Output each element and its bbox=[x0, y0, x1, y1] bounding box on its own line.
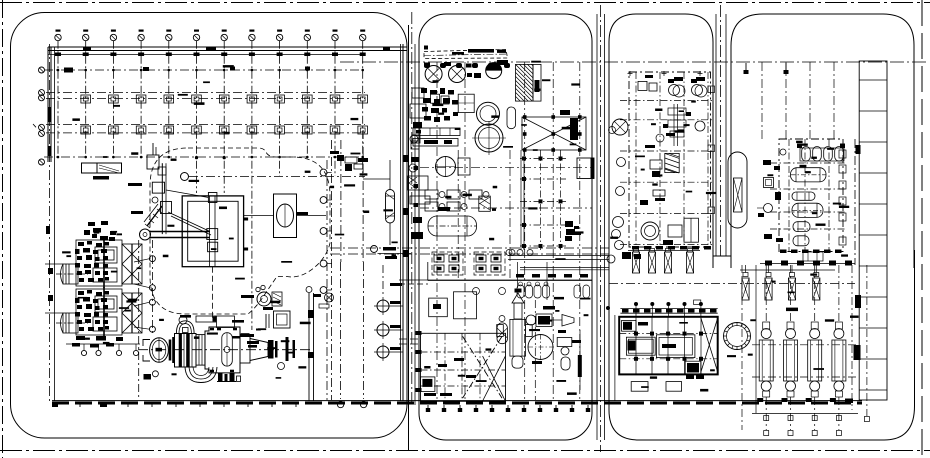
right border squares C bbox=[708, 86, 715, 93]
condenser marks below generator bbox=[218, 373, 223, 381]
column circle A6 bbox=[193, 34, 199, 40]
vessel capsule bbox=[386, 190, 395, 224]
fan circle 1 bbox=[425, 66, 442, 83]
left verticals bbox=[614, 315, 616, 401]
node dots on blob edge bbox=[195, 156, 198, 159]
column line A9 bbox=[279, 41, 281, 176]
road B/C lines bbox=[596, 14, 598, 440]
horizontal dash rows plot B bbox=[420, 167, 592, 169]
left circle with stem bbox=[764, 204, 773, 213]
building left edge bbox=[47, 47, 49, 162]
label marks turbine bbox=[180, 315, 191, 318]
crane pivot bbox=[161, 202, 172, 214]
capsule tank on road CD bbox=[728, 152, 747, 228]
right border squares bbox=[839, 150, 846, 158]
boiler feed annex top bbox=[147, 155, 159, 169]
bottom dash row D1 bbox=[780, 250, 787, 254]
extra bullet grid lines right bbox=[851, 265, 853, 410]
plot CD merged bottom boundary bbox=[609, 250, 915, 440]
hatched rect bbox=[516, 64, 534, 101]
bullet vessel at 838.9 bbox=[832, 265, 846, 436]
big circle bbox=[528, 335, 553, 360]
road crossing y248 bbox=[330, 247, 609, 249]
boiler unit B1 bbox=[56, 238, 142, 288]
column circle A12 bbox=[360, 34, 366, 40]
column line A10 bbox=[306, 41, 308, 157]
small marks top circles bbox=[674, 77, 683, 81]
column circle A2 bbox=[83, 34, 89, 40]
bullet vessel at 790.5 bbox=[784, 265, 798, 436]
plot B boundary bbox=[419, 14, 592, 440]
block C internal verticals bbox=[635, 72, 637, 247]
column circle A4 bbox=[138, 34, 144, 40]
slim vessel row 2 bbox=[742, 278, 749, 300]
condenser arcs below LP bbox=[185, 367, 217, 383]
cooling blob dashed outline bbox=[150, 148, 330, 314]
central channel bbox=[209, 196, 211, 267]
column circle A5 bbox=[166, 34, 172, 40]
block D1 dash border bbox=[779, 139, 843, 252]
boiler top economizer cluster bbox=[84, 230, 90, 235]
circles row below boilers bbox=[81, 350, 86, 355]
plot B bottom ticks bbox=[427, 405, 429, 409]
column line A1 bbox=[57, 41, 59, 160]
left edge items column bbox=[412, 88, 424, 98]
bottom tick marks plot A bbox=[56, 402, 58, 407]
crane boom bbox=[150, 231, 210, 233]
label tick blob bbox=[296, 212, 308, 215]
block D1 rows bbox=[770, 162, 847, 164]
left big circle bbox=[612, 119, 628, 135]
central square structure outer bbox=[182, 196, 243, 267]
bullet vessel at 814.7 bbox=[808, 265, 822, 436]
ellipse pump house bbox=[274, 194, 297, 238]
inlet brackets left bbox=[143, 340, 150, 362]
building bottom line bbox=[52, 400, 862, 402]
column line A8 bbox=[251, 41, 253, 330]
main hall heavy rect bbox=[619, 317, 718, 375]
rect near B right edge bbox=[577, 158, 594, 179]
turbine bay right edge verticals bbox=[308, 293, 310, 401]
dash verticals x340 x363 bbox=[340, 262, 342, 399]
plot D col lines bbox=[761, 62, 763, 141]
horizontal vessel v3 bbox=[792, 203, 823, 217]
plot C boundary bbox=[609, 14, 713, 268]
column circle A9 bbox=[276, 34, 282, 40]
shed rect bbox=[454, 292, 477, 319]
generator bbox=[205, 327, 240, 373]
right items bbox=[557, 338, 572, 347]
crane mast top boxes bbox=[152, 182, 164, 193]
bullet vessel at 766.2 bbox=[759, 265, 773, 436]
heat exchanger bank bbox=[673, 104, 675, 146]
column line A12 bbox=[362, 41, 364, 176]
crane boom end circle bbox=[140, 229, 151, 240]
feed pump group bbox=[257, 292, 271, 306]
black blobs around fans bbox=[424, 63, 430, 67]
mid circle with cross bbox=[436, 157, 456, 177]
dark tick marks row y70 bbox=[64, 68, 73, 73]
dense equipment below fans bbox=[421, 88, 427, 93]
outer road right bbox=[921, 0, 923, 458]
black cluster bottom-left bbox=[420, 377, 435, 392]
taper step bbox=[240, 336, 250, 364]
left square box bbox=[764, 178, 774, 188]
crane diagonals bbox=[168, 212, 209, 231]
top cluster right strip bbox=[337, 155, 344, 161]
vertical line x855 bbox=[854, 139, 856, 265]
bullet grid rows bbox=[752, 344, 858, 346]
dark marks on road lines bbox=[403, 155, 409, 162]
left capsule with X bbox=[497, 323, 507, 344]
small pump cluster right of blob bbox=[325, 293, 334, 302]
coupling bbox=[196, 335, 205, 366]
nodes on X frame bbox=[523, 115, 527, 119]
column circle A7 bbox=[221, 34, 227, 40]
column circle A10 bbox=[304, 34, 310, 40]
horizontal vessel v4 bbox=[793, 222, 810, 232]
square bottom stem bbox=[212, 267, 214, 318]
left edge black marks bbox=[416, 331, 422, 335]
bottom cluster C bbox=[641, 222, 659, 240]
boiler bottom marks bbox=[76, 336, 85, 340]
bottom marks bullets bbox=[757, 398, 763, 402]
column circle A1 bbox=[55, 34, 61, 40]
circle 700,126 bbox=[695, 121, 705, 131]
slim capsule right of circles bbox=[507, 107, 516, 129]
column line A3 bbox=[112, 41, 114, 160]
turbine shaft centerline bbox=[138, 349, 310, 351]
column line A2 bbox=[85, 41, 87, 160]
road CD connector bbox=[713, 255, 731, 257]
circles column x323 bbox=[326, 160, 328, 400]
pump with motor right bbox=[536, 314, 552, 327]
line y280 with corner bbox=[428, 280, 592, 282]
column line A6 bbox=[196, 41, 198, 193]
outer road top bbox=[0, 2, 930, 4]
turbine front ellipse bbox=[150, 338, 169, 363]
top rack with 4 capsules bbox=[800, 148, 844, 161]
top ticks plot D bbox=[745, 63, 747, 73]
row y176 bbox=[189, 176, 365, 178]
row lines bbox=[44, 69, 365, 71]
dark cluster right bbox=[565, 221, 573, 227]
mid verticals lower bbox=[534, 300, 536, 400]
plot C extra details bbox=[609, 71, 715, 214]
square box bbox=[429, 298, 448, 317]
vertical line x138 lower bbox=[138, 240, 140, 400]
dark blobs along road under train bbox=[424, 63, 430, 68]
crossing band lines bbox=[508, 255, 609, 257]
vertical text line x580 bbox=[579, 330, 581, 390]
blob label left bbox=[128, 183, 142, 186]
plot B rack bars left bbox=[413, 128, 460, 207]
row below D1 bbox=[760, 263, 855, 265]
column line A11 bbox=[334, 41, 336, 176]
column line A4 bbox=[140, 41, 142, 160]
top rack band bbox=[620, 307, 717, 309]
rack top dots bbox=[634, 302, 638, 306]
big grid rect lower left bbox=[421, 333, 506, 401]
plot D boundary bbox=[731, 14, 914, 268]
left small circles bbox=[617, 158, 626, 167]
left small ticks bbox=[48, 268, 53, 274]
3 circles column x383 bbox=[377, 300, 389, 312]
hatched square mid bbox=[665, 153, 679, 172]
building top edge double line bbox=[48, 46, 407, 48]
front flanges bbox=[169, 340, 172, 361]
bottom assembly below border bbox=[803, 252, 823, 261]
pump rows bbox=[425, 190, 438, 199]
pump row clusters top bbox=[432, 252, 463, 275]
column circle A8 bbox=[249, 34, 255, 40]
leader lines boilers to circles bbox=[134, 259, 150, 262]
row below C: small items bbox=[607, 255, 615, 263]
plot A right edge extra line bbox=[400, 44, 402, 401]
road horizontal y62 bbox=[340, 61, 928, 63]
central square inner bbox=[188, 201, 238, 261]
hall verticals bbox=[635, 317, 637, 375]
LP dome arcs above bbox=[176, 321, 194, 334]
vertical dash columns plot B bbox=[436, 62, 438, 400]
road C/D lines bbox=[715, 14, 717, 256]
vertical vessel train center bbox=[515, 289, 522, 293]
outer road left bbox=[2, 0, 4, 458]
X brace tall right bbox=[701, 318, 718, 372]
small circle 281,366 bbox=[278, 363, 285, 370]
column circle A11 bbox=[332, 34, 338, 40]
exciter disc bars bbox=[268, 340, 274, 359]
circle below front bbox=[152, 371, 158, 377]
X brace in grid rect bbox=[463, 336, 502, 398]
dark stair cluster bbox=[685, 361, 701, 374]
pads on rows bbox=[81, 95, 91, 103]
black marks on squares column bbox=[855, 295, 861, 308]
building bottom heavy dashed band bbox=[52, 402, 862, 405]
mid small items bbox=[653, 190, 665, 196]
nested rect 1 bbox=[626, 337, 655, 355]
horizontal vessel v2 bbox=[792, 192, 815, 200]
blob small circle topleft bbox=[152, 197, 158, 203]
LP turbine block bbox=[175, 334, 197, 368]
column line A7 bbox=[223, 41, 225, 193]
nested rect 2 bbox=[656, 335, 695, 358]
fan circle 3 bbox=[486, 63, 502, 79]
crane brace strut hatched bbox=[147, 206, 162, 226]
outer road bottom bbox=[0, 450, 930, 452]
horizontal vessel v1 bbox=[791, 168, 827, 182]
plot A boundary bbox=[11, 13, 408, 439]
top small squares bbox=[638, 81, 647, 90]
horizontal tank vessel bbox=[428, 216, 477, 236]
top train dashed outline bbox=[424, 50, 508, 59]
labels above column circles bbox=[56, 30, 366, 32]
equipment rects bbox=[458, 94, 474, 112]
squares column right bbox=[859, 61, 887, 400]
block C outline bbox=[629, 72, 711, 247]
small vessels row bbox=[517, 285, 524, 298]
boiler drum centerline extensions bbox=[45, 263, 63, 265]
plus ticks top C bbox=[628, 71, 633, 76]
block D1 verticals bbox=[788, 139, 790, 252]
column circle A3 bbox=[110, 34, 116, 40]
small circle 374,249 with line bbox=[371, 246, 378, 253]
top-left dark cluster bbox=[622, 320, 636, 331]
fan circle 2 bbox=[449, 66, 466, 83]
road crossing y280 bbox=[399, 279, 592, 281]
horizontal vessel v5 bbox=[793, 236, 809, 246]
bottom dashes row C bbox=[632, 246, 639, 250]
dark ticks on top edge bbox=[83, 47, 91, 51]
X-braced frame right bbox=[522, 117, 586, 150]
B right bay grid bbox=[520, 150, 522, 250]
big circle CD bbox=[724, 323, 751, 350]
small circle left of big bbox=[609, 127, 616, 134]
block C internal rows bbox=[620, 100, 713, 102]
slim vessel row 1 bbox=[632, 252, 639, 273]
road crossing y339 bbox=[399, 338, 420, 340]
(removed) bbox=[240, 334, 254, 337]
dash verticals right strip bbox=[331, 140, 333, 400]
link lines bbox=[244, 215, 274, 217]
bottom circles on ticks bbox=[337, 401, 343, 407]
boiler unit B2 bbox=[56, 287, 142, 337]
generator edge ticks bbox=[210, 328, 214, 331]
heater rect assembly bbox=[274, 311, 291, 328]
road A/B lines bbox=[402, 44, 404, 401]
rect beside hatch bbox=[533, 64, 541, 101]
two rects below hall bbox=[631, 382, 648, 392]
column line A5 bbox=[168, 41, 170, 160]
cone bbox=[250, 339, 268, 361]
storage box bbox=[82, 163, 122, 173]
circle and box above turbine bbox=[179, 316, 187, 324]
big circle pumps bbox=[477, 102, 500, 125]
circles column x152 bbox=[151, 240, 153, 334]
crane mast bbox=[161, 163, 163, 234]
left grid circles bbox=[39, 67, 45, 73]
square edge ticks bbox=[244, 218, 249, 221]
